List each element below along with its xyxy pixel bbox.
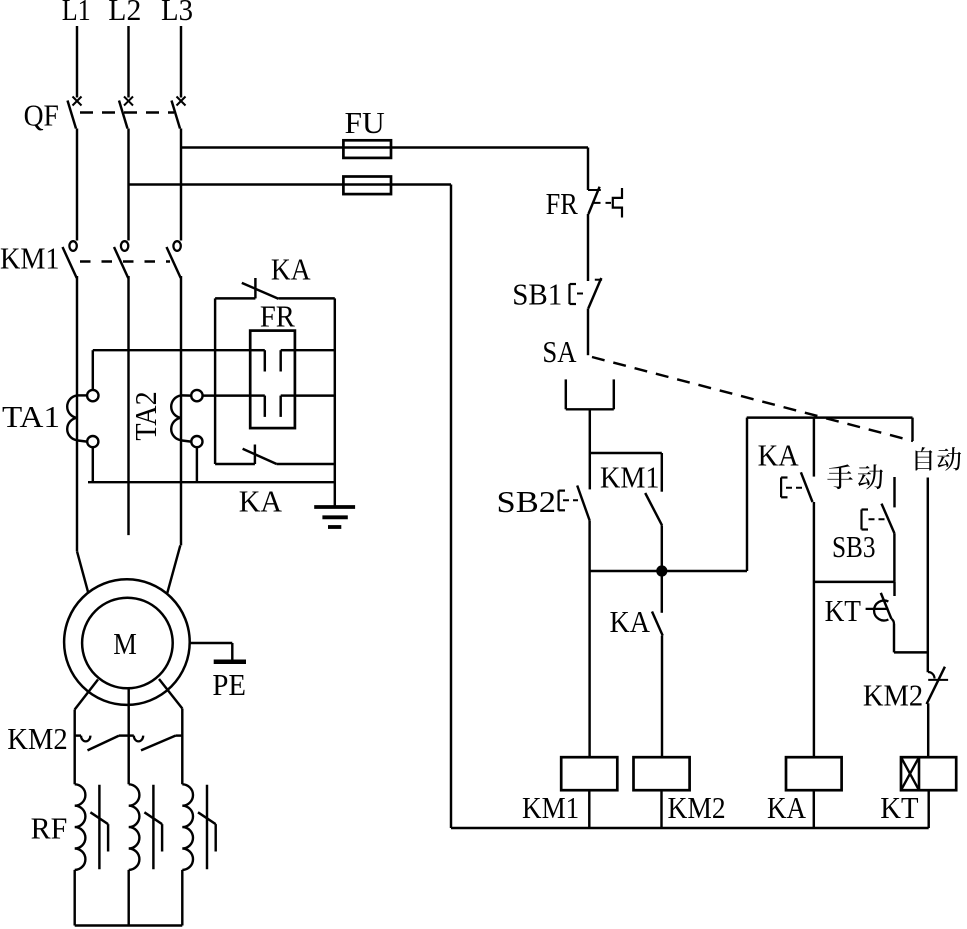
transformer TA1 coil [67, 395, 77, 440]
svg-text:KA: KA [239, 484, 283, 519]
contactor KM2 contact B [129, 736, 183, 751]
thermal relay FR label [260, 298, 295, 333]
rheostat RF phase 2 [129, 784, 162, 870]
coil KM2 label [668, 790, 726, 825]
svg-text:KM2: KM2 [7, 721, 68, 756]
svg-text:QF: QF [24, 98, 59, 133]
svg-text:L3: L3 [161, 0, 193, 27]
contactor KM1 main pole 3 [167, 241, 181, 278]
relay contact KA upper NC [215, 278, 335, 299]
transformer TA1 top terminal [77, 390, 99, 401]
contactor KM1 label [0, 241, 60, 276]
contact KA NO [652, 612, 663, 636]
rotor lead mid [127, 687, 129, 784]
contactor KM2 contact A [75, 736, 129, 751]
wire upper heater row [93, 349, 335, 351]
svg-text:KM2: KM2 [668, 790, 726, 825]
wire KM1 aux top [661, 453, 663, 492]
contact KA manual label [758, 438, 800, 473]
contact KM2 NC [927, 667, 949, 704]
svg-text:PE: PE [212, 667, 246, 702]
time contact KT [866, 582, 895, 624]
wire KA left vertical [214, 298, 216, 464]
wire control bottom rail [451, 827, 929, 829]
rheostat RF label [31, 811, 68, 846]
wire to FU2 [129, 183, 452, 185]
coil KA label [767, 790, 807, 825]
transformer TA1 bottom terminal [77, 436, 98, 447]
wire KM1 coil drop [588, 571, 590, 757]
stator lead L1 [77, 551, 88, 593]
wire rotor right down [181, 870, 183, 926]
breaker QF linkage [80, 111, 174, 113]
transformer TA2 bottom terminal [181, 436, 202, 447]
svg-text:KA: KA [758, 438, 800, 473]
wire L3 drop [180, 26, 182, 98]
wire SA branch [590, 452, 662, 454]
pushbutton SB1 label [512, 277, 562, 312]
breaker QF pole 3 [172, 97, 186, 129]
relay contact KA lower NC [215, 445, 335, 465]
coil KA [786, 757, 842, 790]
contactor KM1 main pole 2 [114, 241, 128, 278]
svg-text:KT: KT [825, 593, 861, 628]
transformer TA2 label [128, 391, 163, 440]
node L1 [62, 0, 91, 27]
wire control left rail [450, 185, 452, 829]
wire KA NO down [661, 636, 663, 758]
contact KM1 aux [645, 493, 662, 525]
breaker QF pole 1 [68, 97, 82, 129]
svg-text:KA: KA [271, 252, 311, 287]
svg-text:KM1: KM1 [522, 790, 579, 825]
svg-text:KT: KT [880, 790, 918, 825]
transformer TA2 top terminal [181, 390, 203, 401]
wire SA to SB2 [589, 453, 591, 489]
contact KA label [610, 604, 651, 639]
rheostat RF phase 3 [182, 784, 215, 870]
breaker QF label [24, 98, 59, 133]
node L3 [161, 0, 193, 27]
wire TA1 bottom down [92, 447, 94, 482]
wire top rail stub [911, 418, 913, 441]
wire L1 drop [76, 26, 78, 98]
wire KM1 coil bottom [588, 790, 590, 828]
contactor KM2 label [7, 721, 68, 756]
pushbutton SB2 [559, 486, 590, 521]
motor M outer [64, 579, 190, 705]
wire KM2 coil bottom [660, 790, 662, 828]
svg-text:SB1: SB1 [512, 277, 562, 312]
label manual [827, 464, 883, 489]
wire FR to SB1 [587, 214, 589, 281]
transformer TA1 label [2, 399, 60, 434]
svg-text:M: M [113, 626, 137, 661]
svg-text:SA: SA [542, 334, 577, 369]
thermal relay FR box [250, 331, 295, 429]
rotor lead right [159, 679, 182, 784]
thermal contact FR NC [588, 187, 622, 218]
svg-text:L2: L2 [108, 0, 141, 27]
wire SB2 down [588, 520, 590, 571]
contactor KM1 main pole 1 [63, 241, 77, 278]
selector SA linkage [592, 357, 913, 441]
wire SB3 down [893, 533, 895, 582]
wire right riser [746, 418, 748, 571]
svg-text:KM1: KM1 [600, 460, 659, 495]
wire L2 lower [127, 276, 129, 535]
wire manual branch top [813, 418, 815, 477]
svg-text:RF: RF [31, 811, 68, 846]
thermal contact FR label [546, 186, 578, 221]
wire to FU1 [181, 146, 588, 148]
wire rotor mid down [127, 870, 129, 926]
ground PE label [212, 667, 246, 702]
wire KM2 NC down [927, 703, 929, 757]
wire L3 lower [180, 276, 182, 545]
fuse FU1 [343, 140, 391, 158]
svg-text:SB3: SB3 [832, 529, 876, 564]
svg-text:TA2: TA2 [128, 391, 163, 440]
pushbutton SB3 label [832, 529, 876, 564]
time contact KT label [825, 593, 861, 628]
wire L3 mid [180, 129, 182, 241]
svg-text:L1: L1 [62, 0, 91, 27]
svg-text:KM2: KM2 [863, 678, 923, 713]
label auto [916, 447, 962, 471]
svg-text:FR: FR [546, 186, 578, 221]
wire KT contact down [893, 624, 895, 652]
wire TA1 top up [92, 350, 94, 390]
wire KA coil bottom [813, 790, 815, 828]
wire auto branch [927, 478, 929, 673]
coil KM1 [561, 757, 617, 790]
pushbutton SB1 [570, 278, 603, 308]
svg-text:SB2: SB2 [497, 484, 557, 519]
wire bottom secondary rail [88, 481, 335, 483]
ground PE bar [214, 660, 246, 665]
wire top rail right [747, 416, 913, 418]
fuse FU label [345, 105, 385, 140]
motor M label [113, 626, 137, 661]
wire lower heater row [203, 394, 335, 396]
wire manual junction row [814, 581, 895, 583]
wire KA right vertical [334, 298, 336, 507]
svg-text:KA: KA [610, 604, 651, 639]
wire KA NO top [661, 571, 663, 613]
svg-text:FR: FR [260, 298, 295, 333]
svg-text:KA: KA [767, 790, 807, 825]
pushbutton SB3 [862, 504, 895, 534]
wire control top drop [587, 148, 589, 191]
pushbutton SB2 label [497, 484, 557, 519]
wire L1 mid [76, 129, 78, 241]
relay contact KA label bottom [239, 484, 283, 519]
ground PE wire [189, 643, 232, 660]
breaker QF pole 2 [119, 97, 133, 129]
wire manual branch down [813, 502, 815, 757]
wire KT contact row [894, 651, 928, 653]
svg-text:KM1: KM1 [0, 241, 60, 276]
transformer TA2 coil [171, 395, 181, 440]
svg-text:FU: FU [345, 105, 385, 140]
wire KT coil bottom [927, 790, 929, 828]
selector SA label [542, 334, 577, 369]
wire rotor star rail [75, 924, 183, 926]
wire L2 mid [127, 129, 129, 241]
coil KT [901, 757, 956, 790]
node L2 [108, 0, 141, 27]
svg-text:TA1: TA1 [2, 399, 60, 434]
wire L1 lower [76, 276, 78, 551]
junction dot [656, 565, 667, 576]
motor M inner [82, 598, 173, 689]
ground [314, 507, 355, 527]
wire TA2 bottom down [196, 447, 198, 482]
selector SA bracket [566, 379, 614, 453]
contact KA manual [781, 472, 812, 502]
contactor KM1 linkage [80, 260, 170, 262]
fuse FU2 [343, 177, 391, 195]
wire junction row [590, 570, 747, 572]
rotor lead left [75, 680, 98, 785]
contact KM1 aux label [600, 460, 659, 495]
rheostat RF phase 1 [75, 784, 108, 870]
stator lead L3 [167, 545, 180, 593]
wire KM1 aux down [661, 525, 663, 571]
relay contact KA label top [271, 252, 311, 287]
coil KM2 [634, 757, 690, 790]
coil KT label [880, 790, 918, 825]
wire SB3 stub [893, 477, 895, 507]
contact KM2 NC label [863, 678, 923, 713]
wire SB1 to SA [587, 308, 589, 355]
heater hooks lower [249, 396, 296, 417]
wire L2 drop [127, 26, 129, 98]
wire rotor left down [73, 870, 75, 926]
heater hooks upper [249, 350, 296, 371]
coil KM1 label [522, 790, 579, 825]
